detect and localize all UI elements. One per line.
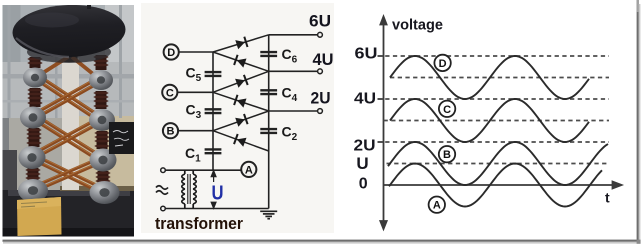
diode D6 (213, 131, 269, 151)
svg-text:t: t (605, 190, 610, 206)
transformer windings (182, 170, 196, 208)
wire transformer top (165, 169, 240, 171)
capacitor C6 (260, 46, 297, 66)
diode D2 (213, 52, 269, 71)
photo of Cockcroft-Walton generator (3, 1, 135, 237)
node A (241, 162, 256, 177)
svg-text:2U: 2U (354, 137, 376, 154)
node B (163, 123, 178, 138)
wire 2U output (269, 110, 318, 112)
svg-text:D: D (439, 58, 447, 70)
chart: dashed gridlines (378, 56, 610, 164)
svg-text:C: C (166, 87, 174, 99)
svg-text:6U: 6U (355, 45, 378, 62)
diode D3 (213, 71, 269, 92)
svg-text:voltage: voltage (392, 17, 443, 34)
svg-text:4U: 4U (313, 50, 334, 69)
capacitor C2 (260, 124, 297, 144)
chart: voltage axis (380, 17, 621, 230)
svg-text:C: C (443, 104, 451, 116)
svg-text:0: 0 (359, 176, 368, 193)
curve label C (439, 101, 455, 117)
node C (162, 85, 177, 100)
frame border right (637, 0, 639, 242)
wire node B stub (179, 130, 213, 132)
svg-text:D: D (167, 47, 175, 59)
wire node D stub (179, 51, 213, 53)
capacitor C5 (186, 65, 222, 85)
terminal 6U (318, 32, 323, 37)
U voltage arrow (211, 171, 216, 209)
diode D4 (213, 92, 269, 111)
schematic background (scanned paper tint) (141, 3, 334, 233)
node D (164, 44, 179, 59)
svg-text:A: A (433, 200, 441, 212)
wire left bus (212, 52, 214, 170)
capacitor C1 (185, 145, 221, 165)
terminal 2U (318, 109, 323, 114)
svg-text:U: U (212, 183, 224, 205)
ground (260, 211, 277, 218)
svg-text:B: B (443, 149, 451, 161)
transformer terminals (161, 168, 166, 211)
svg-text:transformer: transformer (155, 214, 243, 233)
wire 6U output (269, 34, 318, 36)
waveform A (389, 164, 602, 207)
waveform D (390, 56, 589, 99)
capacitor C3 (186, 102, 222, 122)
curve label A (429, 197, 445, 213)
terminal 4U (318, 69, 323, 74)
curve label B (439, 146, 455, 162)
curve label D (434, 55, 450, 71)
diode D1 (213, 35, 269, 52)
diode D5 (213, 111, 269, 131)
svg-text:U: U (356, 154, 368, 173)
svg-text:2U: 2U (311, 89, 331, 108)
svg-text:4U: 4U (354, 90, 376, 107)
AC source symbol (156, 186, 168, 195)
waveform B (388, 142, 608, 185)
chart: level tick marks (378, 56, 385, 142)
wire right bus (268, 35, 270, 209)
svg-text:B: B (167, 126, 175, 138)
wire 4U output (269, 70, 318, 72)
chart: t axis (384, 184, 614, 186)
svg-text:A: A (245, 164, 253, 176)
wire node C stub (178, 91, 213, 93)
capacitor C4 (260, 85, 297, 105)
frame border bottom (3, 240, 639, 242)
waveform C (390, 99, 589, 142)
wire transformer bottom (165, 208, 269, 210)
svg-text:6U: 6U (309, 12, 331, 31)
